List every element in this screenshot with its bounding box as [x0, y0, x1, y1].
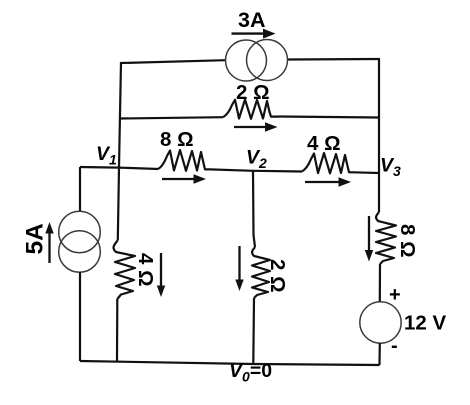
wire bottom (ground rail): [80, 361, 380, 365]
wire main line right segment (to v3): [353, 171, 379, 174]
wire left branch lower (5A source to bottom): [79, 272, 81, 361]
svg-text:4 Ω: 4 Ω: [307, 132, 341, 155]
svg-text:V1: V1: [96, 143, 117, 168]
svg-text:8 Ω: 8 Ω: [396, 224, 419, 258]
wire left branch upper (v1 to 5A source): [79, 167, 81, 212]
resistor R5 8ohm vertical zigzag: [376, 212, 396, 264]
svg-text:V3: V3: [380, 155, 401, 180]
resistor R4 2ohm vertical zigzag: [252, 247, 270, 298]
resistor R2 4ohm zigzag: [302, 153, 353, 173]
wire 4ohm branch upper (v1 down): [118, 168, 119, 240]
wire right vertical (top frame through v3): [378, 58, 380, 212]
current source I2 5A symbol: [59, 211, 101, 272]
wire top-right segment: [288, 58, 380, 61]
arrow current direction through 4ohm: [305, 177, 351, 186]
wire right branch bottom (source to bottom wire): [378, 343, 380, 365]
svg-text:2 Ω: 2 Ω: [236, 81, 270, 104]
current source I1 3A symbol: [226, 40, 288, 82]
wire 4ohm branch lower: [116, 299, 119, 362]
wire top-left segment: [121, 60, 226, 63]
wire middle branch lower: [252, 298, 255, 364]
wire main line left segment (v1 area): [80, 167, 158, 169]
svg-text:5A: 5A: [22, 223, 49, 255]
svg-text:3A: 3A: [238, 8, 265, 32]
wire second-left segment: [121, 117, 223, 118]
resistor R1 8ohm zigzag: [158, 150, 210, 171]
arrow current direction through top 2ohm: [234, 122, 278, 131]
svg-text:V2: V2: [246, 147, 267, 172]
arrow current direction through vertical 2ohm (down): [235, 246, 243, 291]
wire left vertical (top frame to node v1): [119, 62, 121, 167]
wire right branch (8ohm to source): [379, 264, 381, 302]
arrow current direction through 8ohm: [162, 174, 206, 183]
svg-text:8 Ω: 8 Ω: [160, 128, 194, 151]
arrow current direction 3A: [232, 29, 276, 39]
resistor R3 4ohm vertical zigzag: [114, 240, 135, 299]
svg-text:2 Ω: 2 Ω: [266, 259, 289, 293]
wire second-right segment: [279, 117, 379, 118]
resistor R top 2ohm zigzag: [223, 100, 279, 119]
arrow current direction through vertical 8ohm (down): [365, 216, 373, 262]
svg-text:-: -: [391, 335, 398, 357]
arrow current direction through vertical 4ohm (down): [157, 253, 165, 297]
svg-text:+: +: [389, 284, 401, 306]
voltage source V1 12V symbol: [360, 302, 401, 343]
svg-text:V0=0: V0=0: [229, 360, 272, 385]
wire middle branch upper (v2 down): [253, 171, 255, 247]
arrow current direction 5A (up): [45, 222, 53, 263]
wire main line middle segment (v2 area): [210, 169, 302, 171]
svg-text:12 V: 12 V: [404, 312, 446, 335]
svg-text:4 Ω: 4 Ω: [134, 253, 157, 287]
